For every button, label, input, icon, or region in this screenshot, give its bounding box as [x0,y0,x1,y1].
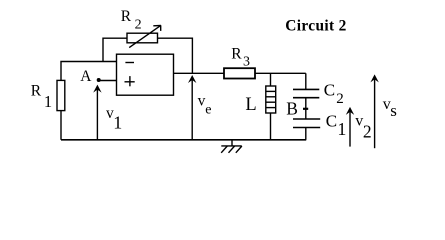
node A junction dot [97,78,101,82]
svg-text:e: e [205,102,211,117]
wire: inverting-input net from R1 top to op-amp minus input [61,62,117,81]
op-amp U1 body [117,54,174,95]
op-amp minus sign [125,62,134,64]
svg-text:1: 1 [337,119,346,139]
wire: C2 to C1 (node B branch) [305,98,307,119]
wire: down into C2 [305,73,307,89]
svg-text:A: A [80,68,92,85]
wire: op-amp output to R3 [174,72,225,74]
wire: bottom ground rail [61,139,306,141]
voltage arrow ve shaft [191,77,193,140]
svg-text:1: 1 [113,112,122,132]
svg-text:2: 2 [135,18,142,33]
resistor R3 [224,68,255,78]
voltage arrow vs shaft [374,77,376,149]
svg-text:2: 2 [363,122,372,142]
inductor L body (stacked cells) [266,86,276,113]
svg-text:Circuit 2: Circuit 2 [285,18,346,35]
svg-text:s: s [390,101,397,120]
voltage arrow v2 shaft [349,109,351,147]
wire: R3 to capacitor branch [255,72,306,74]
wire: R1 bottom to ground rail [60,111,62,140]
svg-text:3: 3 [243,55,250,70]
svg-text:C: C [326,111,337,130]
svg-text:R: R [31,83,42,100]
svg-text:1: 1 [44,92,52,111]
resistor R1 [57,80,65,110]
variable-resistor arrow through R2 [129,25,161,47]
svg-text:B: B [286,98,298,118]
svg-text:C: C [324,81,335,100]
arrowhead of vs [370,74,378,82]
capacitor C2 plates [293,88,319,90]
voltage arrow v1 shaft [96,87,98,140]
arrowhead of v1 [93,85,101,93]
arrowhead of ve [188,75,196,83]
ground symbol [231,140,233,146]
svg-text:R: R [121,8,132,25]
op-amp plus sign [125,81,135,83]
capacitor C1 plates [293,118,320,120]
wire: L bottom to ground rail [270,113,272,140]
arrowhead of v2 [346,107,354,115]
svg-text:2: 2 [336,91,344,107]
wire: R2 feedback loop (left vertical, top run, right vertical) [103,38,192,73]
node B tick [303,108,308,110]
svg-text:L: L [245,95,256,115]
resistor R2 (variable) body [127,33,158,43]
svg-text:R: R [231,45,242,62]
wire: tap down to inductor L [270,73,272,86]
wire: node A stub to op-amp plus input [99,80,117,82]
wire: C1 bottom to ground rail [305,128,307,140]
